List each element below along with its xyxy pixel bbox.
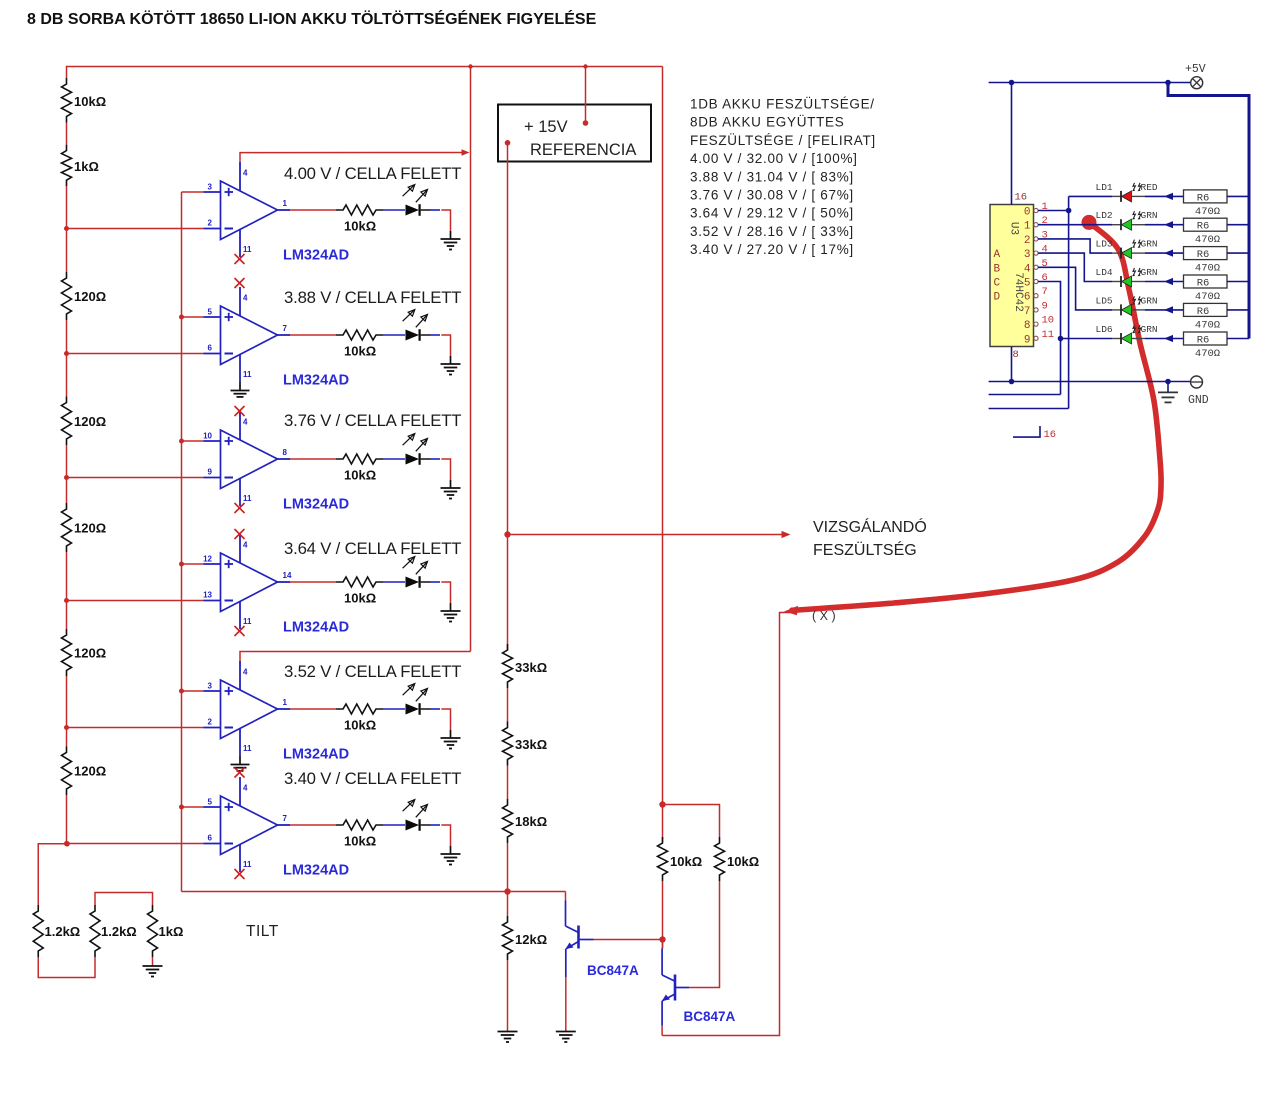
wire LED to ground corner stage 5 [441, 709, 450, 730]
wire U3 pin16 vertical [1011, 83, 1013, 205]
svg-text:18kΩ: 18kΩ [515, 814, 547, 829]
svg-text:5: 5 [208, 308, 213, 317]
svg-text:470Ω: 470Ω [1195, 206, 1220, 218]
wire R6 to bus row 3 [1227, 252, 1249, 254]
wire ref col to ground [507, 960, 509, 1032]
svg-text:470Ω: 470Ω [1195, 319, 1220, 331]
ground R1k bottom [143, 965, 163, 977]
wire bottom row 2 [989, 394, 1061, 396]
wire pin4 to LD5 [1038, 267, 1112, 310]
svg-text:470Ω: 470Ω [1195, 263, 1220, 275]
svg-text:1kΩ: 1kΩ [159, 924, 184, 939]
LED LD6 GRN [1112, 325, 1145, 344]
wire resistor to LED stage 1 [383, 209, 405, 211]
ground Q1 emitter [556, 1032, 576, 1043]
resistor 33kΩ #2 [503, 722, 513, 766]
svg-text:+5V: +5V [1185, 63, 1206, 76]
svg-text:120Ω: 120Ω [74, 646, 106, 661]
op-amp stage 3 LM324AD U1 [204, 411, 291, 506]
resistor 10kΩ output stage 4 [336, 577, 383, 587]
no-connect X pin4 stage 3 [235, 406, 245, 416]
junction top bus chip [1009, 80, 1015, 86]
ground LED stage 4 [441, 603, 461, 622]
svg-text:8 DB SORBA KÖTÖTT 18650 LI-ION: 8 DB SORBA KÖTÖTT 18650 LI-ION AKKU TÖLT… [27, 9, 597, 28]
svg-text:6: 6 [208, 834, 213, 843]
resistor 10kΩ right (pull) [715, 837, 725, 881]
no-connect X pin4 stage 2 [235, 278, 245, 288]
svg-text:U3: U3 [1008, 222, 1020, 235]
wire R6 to bus row 1 [1227, 195, 1249, 197]
wire pin1 to LD2 [1038, 224, 1112, 226]
wire R6 to bus row 5 [1227, 309, 1249, 311]
wire tap 3 to op-amp 3 inverting input [67, 477, 204, 479]
svg-text:33kΩ: 33kΩ [515, 737, 547, 752]
wire chain seg3 [66, 320, 68, 397]
junction top at x=585 [583, 64, 587, 68]
svg-text:6: 6 [208, 344, 213, 353]
LED LD2 GRN [1112, 211, 1145, 230]
junction + bus row 5 [179, 689, 184, 694]
svg-text:GRN: GRN [1141, 295, 1158, 306]
wire R6 to bus row 6 [1227, 338, 1249, 340]
junction + bus row 6 [179, 805, 184, 810]
resistor R 120Ω #5 [62, 746, 72, 795]
svg-text:120Ω: 120Ω [74, 414, 106, 429]
wire 10k pair top link [663, 805, 720, 838]
no-connect X pin11 stage 6 [235, 869, 245, 879]
svg-text:BC847A: BC847A [587, 963, 639, 978]
wire pin0 riser [1068, 196, 1070, 408]
svg-text:BC847A: BC847A [684, 1009, 736, 1024]
svg-text:7: 7 [283, 324, 288, 333]
junction + bus row 4 [179, 562, 184, 567]
svg-text:3.88 V / 31.04 V / [ 83%]: 3.88 V / 31.04 V / [ 83%] [690, 169, 854, 184]
svg-text:7: 7 [1024, 306, 1031, 318]
transistor Q2 BC847A [662, 948, 689, 1025]
resistor R 120Ω #3 [62, 503, 72, 552]
junction tap 2 [64, 351, 69, 356]
wire output stage 6 [290, 824, 336, 826]
svg-text:R6: R6 [1197, 335, 1210, 347]
resistor 1kΩ bottom [148, 905, 158, 957]
svg-text:FESZÜLTSÉGE / [FELIRAT]: FESZÜLTSÉGE / [FELIRAT] [690, 133, 876, 148]
ground LED stage 1 [441, 231, 461, 250]
svg-text:11: 11 [243, 617, 252, 626]
svg-text:8: 8 [283, 448, 288, 457]
svg-text:11: 11 [243, 744, 252, 753]
svg-text:GND: GND [1188, 394, 1209, 407]
resistor R 120Ω #4 [62, 629, 72, 676]
svg-text:120Ω: 120Ω [74, 521, 106, 536]
svg-text:0: 0 [1024, 207, 1031, 219]
resistor R6 row 1 [1184, 190, 1228, 203]
wire resistor to LED stage 2 [383, 334, 405, 336]
svg-text:1.2kΩ: 1.2kΩ [45, 924, 81, 939]
svg-text:3.52 V / CELLA FELETT: 3.52 V / CELLA FELETT [284, 662, 461, 681]
svg-text:12kΩ: 12kΩ [515, 932, 547, 947]
wire output stage 1 [290, 209, 336, 211]
thick curve arrow tip [784, 606, 798, 615]
svg-text:B: B [994, 263, 1001, 275]
svg-text:470Ω: 470Ω [1195, 234, 1220, 246]
LED LD1 RED [1112, 183, 1145, 202]
svg-text:LD1: LD1 [1096, 182, 1113, 193]
wire resistor to LED stage 5 [383, 708, 405, 710]
text battery voltage table [690, 97, 876, 258]
wire LD1 to R6 [1145, 193, 1184, 200]
labels A B C D inputs [994, 249, 1001, 304]
wire LED to ground corner stage 3 [441, 459, 450, 480]
LED indicator stage 3 [403, 434, 440, 465]
resistor 10kΩ output stage 2 [336, 330, 383, 340]
svg-text:74HC42: 74HC42 [1012, 272, 1024, 312]
svg-text:GRN: GRN [1141, 210, 1158, 221]
svg-text:3.64 V / CELLA FELETT: 3.64 V / CELLA FELETT [284, 539, 461, 558]
wire ref col seg2 [507, 688, 509, 722]
svg-text:R6: R6 [1197, 249, 1210, 261]
junction test voltage at ref column [504, 531, 510, 537]
wire LED to ground corner stage 2 [441, 335, 450, 356]
svg-text:R6: R6 [1197, 278, 1210, 290]
wire pin3 to LD4 [1038, 253, 1112, 281]
op-amp stage 2 LM324AD U1 [204, 287, 291, 382]
wire ref col seg4 [507, 843, 509, 916]
no-connect X pin4 stage 6 [235, 768, 245, 778]
LED indicator stage 1 [403, 185, 440, 216]
svg-text:4.00 V / 32.00 V / [100%]: 4.00 V / 32.00 V / [100%] [690, 151, 858, 166]
wire LED to ground corner stage 4 [441, 582, 450, 603]
no-connect X pin11 stage 1 [235, 254, 245, 264]
ground LED stage 6 [441, 846, 461, 865]
no-connect X pin4 stage 4 [235, 529, 245, 539]
resistor R 120Ω #1 [62, 272, 72, 320]
svg-text:11: 11 [243, 245, 252, 254]
wire resistor to LED stage 6 [383, 824, 405, 826]
transistor Q1 BC847A [566, 901, 594, 978]
wire + input bus vertical [181, 192, 183, 892]
svg-text:8: 8 [1013, 349, 1019, 361]
svg-text:33kΩ: 33kΩ [515, 660, 547, 675]
resistor R6 row 4 [1184, 275, 1228, 288]
svg-text:3: 3 [208, 682, 213, 691]
wire LD2 to R6 [1145, 221, 1184, 228]
svg-text:10kΩ: 10kΩ [670, 854, 702, 869]
svg-text:4: 4 [243, 418, 248, 427]
wire op3 + stub [182, 440, 204, 442]
arrow test voltage [782, 531, 791, 538]
wire reference column from box [507, 143, 509, 650]
wire U3 pin8 vertical [1011, 347, 1013, 382]
svg-text:7: 7 [283, 814, 288, 823]
svg-text:10kΩ: 10kΩ [727, 854, 759, 869]
svg-text:9: 9 [1042, 300, 1048, 312]
wire chain seg4 [66, 445, 68, 503]
svg-text:8: 8 [1024, 320, 1031, 332]
wire LED to ground corner stage 6 [441, 825, 450, 846]
svg-text:10kΩ: 10kΩ [344, 219, 376, 234]
junction tap 1 [64, 226, 69, 231]
resistor R6 row 3 [1184, 247, 1228, 260]
wire bottom bracket pin16 stub [1013, 426, 1040, 437]
svg-text:GRN: GRN [1141, 324, 1158, 335]
wire R1k to ground [152, 957, 154, 965]
pin circles U3 outputs [1034, 208, 1038, 340]
wire bottom horizontal to (X) riser [662, 613, 790, 1036]
svg-text:R6: R6 [1197, 306, 1210, 318]
junction 10k pair top [659, 801, 665, 807]
pin numbers op-amp stage 1 [208, 169, 288, 255]
IC U3 74HC42 body [990, 205, 1034, 347]
svg-text:LM324AD: LM324AD [283, 863, 349, 879]
wire LD4 to R6 [1145, 278, 1184, 285]
svg-text:3.76 V / 30.08 V / [ 67%]: 3.76 V / 30.08 V / [ 67%] [690, 188, 854, 203]
svg-text:1kΩ: 1kΩ [74, 159, 99, 174]
wire top horizontal +15V feed [67, 66, 663, 68]
wire op5 + stub [182, 690, 204, 692]
wire op1 + stub [182, 191, 204, 193]
pin numbers op-amp stage 3 [203, 418, 287, 504]
svg-text:4: 4 [243, 541, 248, 550]
wire tap 5 to op-amp 5 inverting input [67, 727, 204, 729]
svg-text:LD6: LD6 [1096, 324, 1113, 335]
box +15V REFERENCIA [498, 105, 651, 162]
ground pin11 stage 2 [231, 382, 250, 397]
wire Q2 collector to right 10k [689, 881, 720, 988]
svg-text:10kΩ: 10kΩ [344, 468, 376, 483]
svg-text:10: 10 [1042, 315, 1055, 327]
svg-text:3.52 V / 28.16 V / [ 33%]: 3.52 V / 28.16 V / [ 33%] [690, 224, 854, 239]
no-connect X pin11 stage 4 [235, 626, 245, 636]
svg-text:2: 2 [208, 718, 213, 727]
no-connect X pin11 stage 3 [235, 503, 245, 513]
junction GND chip [1009, 379, 1015, 385]
op-amp stage 1 LM324AD U1 [204, 162, 291, 257]
wire pin0 stub [1038, 210, 1069, 212]
wire left 10k to Q1 base junction [662, 881, 664, 948]
wire chain seg1 [66, 123, 68, 145]
wire output stage 4 [290, 581, 336, 583]
pin numbers op-amp stage 6 [208, 784, 288, 870]
thick curve start dot [1082, 215, 1097, 230]
junction tap 5 [64, 725, 69, 730]
wire test voltage with arrow [508, 534, 785, 536]
junction top bus +5V [1165, 80, 1171, 86]
svg-text:LD4: LD4 [1096, 267, 1113, 278]
svg-text:4: 4 [243, 784, 248, 793]
junction GND symbol [1165, 379, 1171, 385]
svg-text:470Ω: 470Ω [1195, 348, 1220, 360]
svg-text:10kΩ: 10kΩ [344, 718, 376, 733]
wire resistor to LED stage 3 [383, 458, 405, 460]
resistor R 10kΩ (top of divider) [62, 78, 72, 123]
wire stub into box top [585, 67, 587, 124]
svg-text:470Ω: 470Ω [1195, 291, 1220, 303]
svg-text:11: 11 [1042, 329, 1055, 341]
svg-text:( X ): ( X ) [812, 609, 836, 623]
LED LD4 GRN [1112, 268, 1145, 287]
svg-text:2: 2 [208, 219, 213, 228]
svg-text:1.2kΩ: 1.2kΩ [101, 924, 137, 939]
resistor 1.2kΩ #2 [90, 905, 100, 957]
pin numbers op-amp stage 2 [208, 294, 288, 380]
wire Q1 emitter to ground [565, 977, 567, 1031]
ground LED stage 5 [441, 730, 461, 749]
wire output stage 3 [290, 458, 336, 460]
svg-text:TILT: TILT [246, 923, 279, 940]
svg-text:4: 4 [243, 294, 248, 303]
junction Q1 base node [659, 936, 665, 942]
wire ref col seg3 [507, 766, 509, 800]
resistor R6 row 6 [1184, 332, 1228, 345]
wire pin5 to LD6 [1038, 282, 1061, 395]
svg-text:LM324AD: LM324AD [283, 747, 349, 763]
resistor 18kΩ [503, 799, 513, 843]
svg-text:4: 4 [243, 668, 248, 677]
junction tap 3 [64, 475, 69, 480]
junction bottom bus at ref column [504, 888, 510, 894]
wire chain seg6 [66, 676, 68, 746]
LED indicator stage 4 [403, 557, 440, 588]
svg-text:LD3: LD3 [1096, 239, 1113, 250]
wire op4 + stub [182, 563, 204, 565]
wire LD6 feed [1061, 338, 1113, 340]
wire chain seg7 [66, 795, 68, 844]
svg-text:LM324AD: LM324AD [283, 497, 349, 513]
junction top at x=470 [468, 64, 472, 68]
wire output stage 5 [290, 708, 336, 710]
pin numbers U3 right [1042, 201, 1055, 341]
pin numbers op-amp stage 4 [203, 541, 292, 627]
power symbol +5V [1191, 77, 1203, 89]
svg-text:3: 3 [208, 183, 213, 192]
svg-text:LM324AD: LM324AD [283, 620, 349, 636]
svg-text:16: 16 [1015, 192, 1028, 204]
resistor 10kΩ output stage 3 [336, 454, 383, 464]
junction pin0 node [1066, 208, 1072, 214]
svg-text:13: 13 [203, 591, 212, 600]
svg-text:FESZÜLTSÉG: FESZÜLTSÉG [813, 540, 917, 559]
wire tap 6 to op-amp 6 inverting input [67, 843, 204, 845]
svg-text:D: D [994, 292, 1001, 304]
wire LD5 to R6 [1145, 306, 1184, 313]
ground pin11 stage 5 [231, 756, 250, 771]
wire R6 to bus row 4 [1227, 281, 1249, 283]
svg-text:2: 2 [1024, 235, 1031, 247]
LED indicator stage 5 [403, 684, 440, 715]
svg-text:6: 6 [1024, 292, 1031, 304]
wire left chain top corner [66, 66, 68, 78]
wire LD3 to R6 [1145, 250, 1184, 257]
svg-text:4: 4 [1024, 263, 1031, 275]
svg-text:10kΩ: 10kΩ [74, 94, 106, 109]
svg-text:5: 5 [208, 798, 213, 807]
wire LD1 feed [1069, 195, 1112, 197]
svg-text:LD5: LD5 [1096, 295, 1113, 306]
op-amp stage 4 LM324AD U1 [204, 534, 291, 629]
resistor R 120Ω #2 [62, 397, 72, 446]
svg-text:1: 1 [283, 199, 288, 208]
svg-text:4.00 V / CELLA FELETT: 4.00 V / CELLA FELETT [284, 164, 461, 183]
power symbol GND ring [1191, 376, 1203, 388]
resistor 10kΩ output stage 6 [336, 820, 383, 830]
wire Q1 base [594, 939, 663, 941]
ground GND symbol [1158, 382, 1178, 403]
op-amp stage 6 LM324AD U2 [204, 777, 291, 872]
resistor 12kΩ [503, 916, 513, 960]
svg-text:4: 4 [243, 169, 248, 178]
svg-text:120Ω: 120Ω [74, 764, 106, 779]
wire bottom bus corner to Q1 collector [565, 892, 567, 901]
wire LD6 to R6 [1145, 335, 1184, 342]
svg-text:+ 15V: + 15V [524, 118, 568, 136]
wire pin2 to LD3 [1038, 239, 1112, 253]
svg-text:1DB AKKU FESZÜLTSÉGE/: 1DB AKKU FESZÜLTSÉGE/ [690, 97, 875, 112]
wire op2 + stub [182, 316, 204, 318]
svg-text:9: 9 [208, 468, 213, 477]
svg-text:14: 14 [283, 571, 292, 580]
LED indicator stage 2 [403, 310, 440, 341]
svg-text:LM324AD: LM324AD [283, 248, 349, 264]
svg-text:10kΩ: 10kΩ [344, 834, 376, 849]
thick red highlight curve [792, 222, 1161, 610]
wire +5V down to right bus [1168, 83, 1249, 339]
svg-text:VIZSGÁLANDÓ: VIZSGÁLANDÓ [813, 517, 927, 536]
terminal dot box bottom stub [505, 140, 511, 146]
resistor R6 row 5 [1184, 303, 1228, 316]
wire bottom link R1.2k#1 to R1.2k#2 [38, 957, 95, 978]
resistor 33kΩ #1 [503, 644, 513, 688]
svg-text:3.88 V / CELLA FELETT: 3.88 V / CELLA FELETT [284, 288, 461, 307]
svg-text:3.40 V / 27.20 V / [ 17%]: 3.40 V / 27.20 V / [ 17%] [690, 242, 854, 257]
svg-text:11: 11 [243, 370, 252, 379]
svg-text:8DB AKKU EGYÜTTES: 8DB AKKU EGYÜTTES [690, 115, 844, 130]
svg-text:REFERENCIA: REFERENCIA [530, 141, 636, 159]
svg-text:LM324AD: LM324AD [283, 373, 349, 389]
pin numbers op-amp stage 5 [208, 668, 288, 754]
svg-text:GRN: GRN [1141, 267, 1158, 278]
svg-text:1: 1 [1024, 221, 1031, 233]
op-amp stage 5 LM324AD U2 [204, 661, 291, 756]
wire Q2 emitter to bottom corner [661, 1026, 663, 1036]
LED LD5 GRN [1112, 296, 1145, 315]
wire op-amp1 pin4 supply [240, 153, 463, 163]
svg-text:9: 9 [1024, 334, 1031, 346]
terminal dot box top stub [583, 120, 589, 126]
wire bottom row 3 [989, 408, 1069, 410]
wire GND row [989, 381, 1191, 383]
LED indicator stage 6 [403, 800, 440, 831]
resistor R6 row 2 [1184, 218, 1228, 231]
junction + bus row 3 [179, 439, 184, 444]
svg-text:5: 5 [1024, 278, 1031, 290]
resistor 1.2kΩ #1 [33, 905, 43, 957]
svg-text:A: A [994, 249, 1001, 261]
wire bottom bus horizontal [182, 891, 566, 893]
svg-text:3.40 V / CELLA FELETT: 3.40 V / CELLA FELETT [284, 769, 461, 788]
svg-text:10kΩ: 10kΩ [344, 344, 376, 359]
resistor R 1kΩ (divider) [62, 145, 72, 187]
resistor 10kΩ left (pull) [658, 837, 668, 881]
junction LD6 node [1058, 336, 1064, 342]
wire op-amp5 pin4 supply [240, 652, 471, 662]
wire op6 tap corner to R1.2k#1 [38, 844, 67, 905]
ground LED stage 2 [441, 356, 461, 375]
resistor 10kΩ output stage 5 [336, 704, 383, 714]
svg-text:RED: RED [1141, 182, 1158, 193]
svg-text:11: 11 [243, 860, 252, 869]
svg-text:R6: R6 [1197, 192, 1210, 204]
LED LD3 GRN [1112, 240, 1145, 259]
